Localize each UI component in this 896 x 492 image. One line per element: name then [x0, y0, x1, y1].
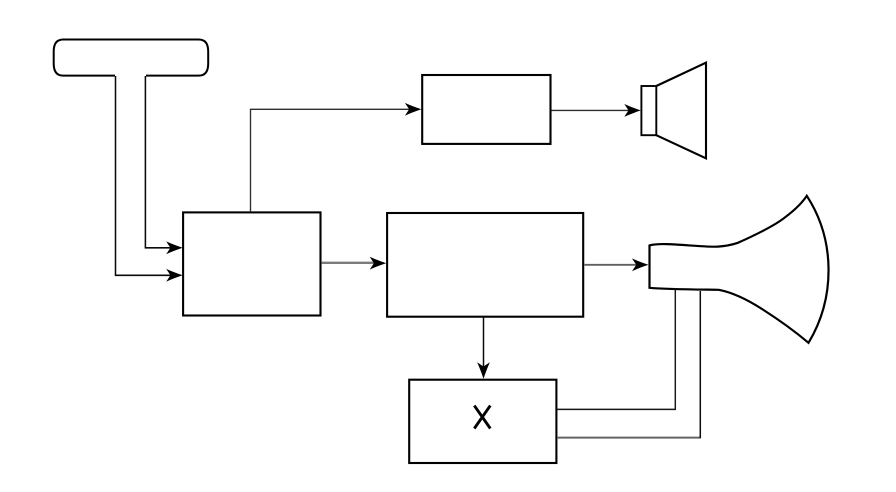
wire antenna left lead to receiver lower input: [116, 76, 183, 282]
wire antenna right lead to receiver upper input: [145, 76, 182, 254]
wire amplifier to loudspeaker: [552, 104, 641, 117]
wire receiver top to amplifier: [251, 103, 422, 212]
block modulator (middle box): [387, 213, 583, 317]
block mixer X: [409, 380, 556, 463]
block amplifier (top box): [422, 75, 550, 144]
wire mixer lower feedback to horn: [557, 437, 700, 439]
label X (drawn strokes): [474, 406, 490, 429]
T antenna top (rounded pill): [54, 40, 209, 76]
block receiver (left box): [183, 212, 320, 315]
loudspeaker driver rectangle: [641, 86, 656, 135]
wire receiver to modulator: [321, 257, 386, 270]
wire mixer upper feedback to horn: [557, 290, 675, 409]
wire modulator to horn: [584, 258, 648, 271]
loudspeaker cone: [656, 63, 706, 159]
horn antenna: [650, 196, 829, 343]
wire modulator bottom to mixer X: [477, 317, 490, 379]
